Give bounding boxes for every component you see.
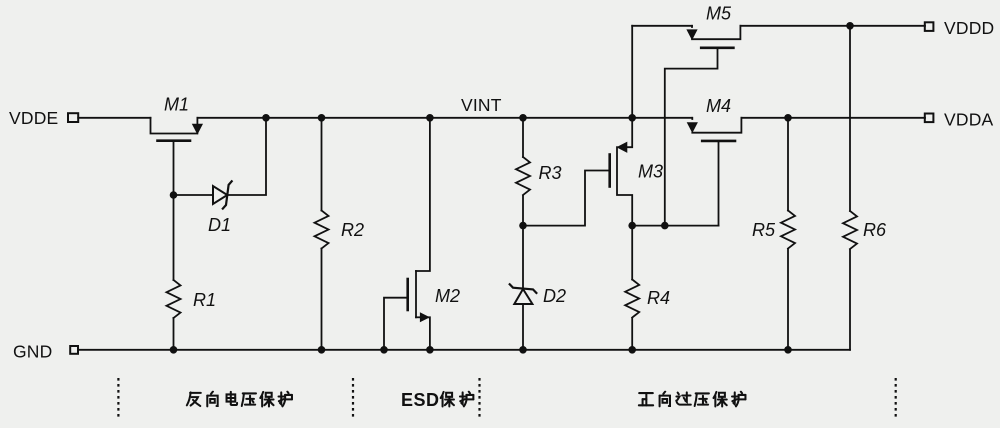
node R1 on GND <box>170 346 178 354</box>
rail VINT <box>266 117 692 119</box>
wire M2 drain <box>416 118 430 271</box>
separator dashed line 2 <box>352 378 354 419</box>
node R5 on GND <box>784 346 792 354</box>
node R4 on GND <box>628 346 636 354</box>
rail GND <box>78 349 850 351</box>
separator dashed line 3 <box>478 378 480 419</box>
svg-text:R5: R5 <box>752 220 776 240</box>
svg-text:R2: R2 <box>341 220 364 240</box>
wire R1 top lead <box>173 195 175 280</box>
label ESD保护 <box>401 390 473 410</box>
terminal VDDD <box>925 22 934 31</box>
resistor R1 <box>167 280 181 318</box>
resistor R2 <box>315 211 329 249</box>
svg-text:GND: GND <box>13 342 53 362</box>
svg-text:M2: M2 <box>435 286 460 306</box>
node R5 top on VDDA rail <box>784 114 792 122</box>
svg-text:ESD: ESD <box>401 390 440 410</box>
svg-text:M4: M4 <box>706 96 731 116</box>
wire R4 bottom lead <box>631 318 633 350</box>
wire D1 anode <box>174 194 214 196</box>
svg-text:VDDD: VDDD <box>944 18 994 38</box>
svg-text:R3: R3 <box>539 163 562 183</box>
node M5 gate branch <box>661 222 669 230</box>
node M3 source / R4 / gate wire <box>628 222 636 230</box>
svg-text:R4: R4 <box>647 288 670 308</box>
node R3 / D2 / M3 gate <box>519 222 527 230</box>
diode D2 (zener) <box>510 284 537 304</box>
svg-text:M5: M5 <box>706 4 732 24</box>
transistor M2 <box>384 271 430 350</box>
wire D2 bottom lead <box>522 304 524 350</box>
terminal VDDA <box>925 114 934 123</box>
wire R6 bottom lead <box>849 250 851 350</box>
node R2 top on rail <box>318 114 326 122</box>
node R2 on GND <box>318 346 326 354</box>
wire R2 bottom lead <box>321 249 323 350</box>
node M1 gate / D1 anode / R1 <box>170 191 178 199</box>
node R6 top <box>846 22 854 30</box>
wire R1 bottom lead <box>173 318 175 350</box>
wire R3 bottom lead <box>522 196 524 226</box>
node M2 gate on GND <box>380 346 388 354</box>
separator dashed line 4 <box>895 378 897 419</box>
terminal GND <box>70 346 78 354</box>
node VINT / M3 drain / VDDD branch <box>628 114 636 122</box>
transistor M1 <box>151 118 203 195</box>
wire R3 top lead <box>522 118 524 157</box>
wire D1 cathode up to rail <box>227 118 266 195</box>
resistor R4 <box>625 280 639 318</box>
node D1 top on rail <box>262 114 270 122</box>
svg-text:M1: M1 <box>164 95 189 115</box>
diode D1 (zener) <box>213 181 232 208</box>
svg-text:R6: R6 <box>863 220 887 240</box>
transistor M5 <box>632 26 740 226</box>
svg-text:M3: M3 <box>638 162 663 182</box>
svg-text:VDDA: VDDA <box>944 110 994 130</box>
wire R2 top lead <box>321 118 323 211</box>
node M2 source on GND <box>426 346 434 354</box>
transistor M4 <box>688 118 742 226</box>
transistor M3 <box>523 118 632 226</box>
resistor R6 <box>843 211 857 249</box>
resistor R5 <box>781 211 795 249</box>
terminal VDDE <box>68 113 78 122</box>
node R3 top on rail <box>519 114 527 122</box>
wire R5 bottom lead <box>787 249 789 350</box>
svg-text:R1: R1 <box>193 290 216 310</box>
wire gate node to M4 gate <box>632 225 718 227</box>
label 正向过压保护 <box>639 392 746 407</box>
svg-text:VDDE: VDDE <box>9 108 58 128</box>
resistor R3 <box>516 157 530 195</box>
node D2 on GND <box>519 346 527 354</box>
wire R6 top lead <box>849 26 851 211</box>
wire VDDD branch from rail up <box>631 26 633 118</box>
wire D2 top lead <box>522 226 524 288</box>
rail VDDA <box>741 117 925 119</box>
svg-text:D2: D2 <box>543 286 566 306</box>
svg-text:D1: D1 <box>208 215 231 235</box>
wire R4 top lead <box>631 226 633 280</box>
node M2 drain on rail <box>426 114 434 122</box>
svg-text:VINT: VINT <box>461 95 502 115</box>
wire VDDE to M1 source <box>78 117 150 119</box>
wire M1 drain to VINT rail <box>197 117 266 119</box>
separator dashed line 1 <box>117 378 119 419</box>
wire R5 top lead <box>787 118 789 211</box>
wire M5 drain to VDDD <box>740 25 925 27</box>
label 反向电压保护 <box>187 392 292 407</box>
